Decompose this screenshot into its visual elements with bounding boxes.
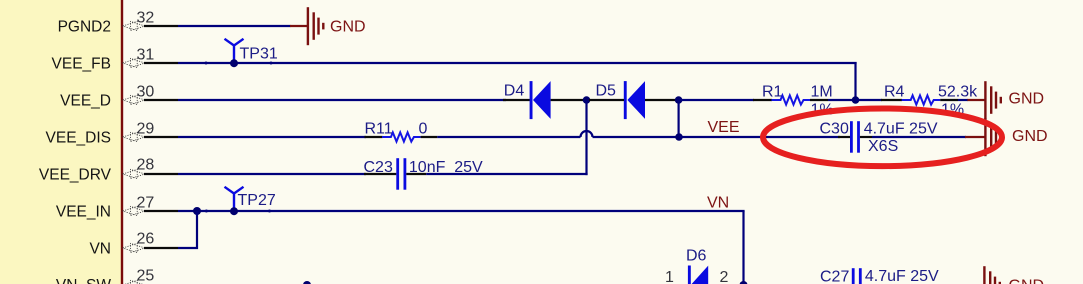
resistor R4 52.3k [881, 83, 978, 118]
ground GND (PGND2) [290, 7, 366, 45]
svg-text:31: 31 [137, 46, 155, 63]
svg-text:28: 28 [137, 157, 155, 174]
svg-text:GND: GND [330, 19, 366, 36]
svg-text:VEE_FB: VEE_FB [52, 55, 111, 72]
pin 28 symbol and stub [123, 169, 178, 178]
svg-text:VEE_DRV: VEE_DRV [39, 166, 112, 183]
pin 29 symbol and stub [123, 132, 178, 141]
svg-text:VN: VN [707, 194, 729, 211]
svg-text:52.3k: 52.3k [938, 83, 978, 100]
svg-text:D4: D4 [504, 82, 525, 99]
ground GND (C30) [965, 118, 1048, 156]
svg-text:PGND2: PGND2 [58, 18, 111, 35]
ground GND (R4) [967, 81, 1044, 119]
node vertex dot (VEE_FB right) [270, 62, 273, 65]
wire D5 node down to VEE net [677, 100, 679, 137]
svg-text:R1: R1 [762, 83, 783, 100]
resistor R1 1M [753, 83, 834, 118]
svg-text:32: 32 [137, 9, 155, 26]
capacitor C23 10nF 25V [364, 158, 484, 190]
node vertex dot (VEE_IN right) [268, 210, 271, 213]
svg-text:VN: VN [89, 240, 111, 257]
svg-text:4.7uF 25V: 4.7uF 25V [864, 120, 938, 137]
svg-text:VEE_IN: VEE_IN [56, 203, 111, 220]
svg-text:1: 1 [665, 269, 674, 284]
svg-text:GND: GND [1009, 278, 1045, 284]
pin 32 symbol and stub [123, 21, 178, 30]
wire hop over vertical [581, 131, 593, 137]
junction D6/VN node [740, 281, 748, 284]
wire PGND2 to GND [178, 25, 291, 27]
svg-text:TP27: TP27 [238, 192, 276, 209]
wire D5 node to R1 [679, 99, 754, 101]
pin 25 symbol and stub [123, 280, 178, 284]
diode D6 [672, 247, 744, 284]
resistor R11 0 [364, 120, 437, 141]
svg-text:D6: D6 [686, 247, 707, 264]
svg-text:GND: GND [1012, 128, 1048, 145]
junction D4-D5 node [583, 96, 591, 104]
wire VEE_IN horizontal [178, 210, 745, 212]
svg-text:4.7uF 25V: 4.7uF 25V [865, 268, 939, 284]
svg-text:GND: GND [1009, 91, 1045, 108]
node vertex dot (VEE_IN) [205, 210, 208, 213]
capacitor C30 4.7uF 25V X6S [820, 120, 938, 154]
wire R11 to hop [437, 136, 580, 138]
test point TP27 [225, 187, 276, 215]
svg-text:30: 30 [137, 83, 155, 100]
svg-text:R11: R11 [365, 120, 393, 137]
junction R1/R4/VEE_FB node [852, 96, 860, 104]
wire VN drop to D6 row [742, 211, 744, 284]
wire C23 to vertical riser [426, 173, 587, 175]
wire R4 to GND [958, 99, 968, 101]
svg-text:29: 29 [137, 120, 155, 137]
ground GND (C27) [965, 266, 1044, 284]
wire VEE node to C30 [679, 136, 840, 138]
wire VN pin up to VEE_IN [178, 211, 197, 248]
diode D4 [503, 81, 587, 119]
pin 26 symbol and stub [123, 243, 178, 252]
wire node to R4 [856, 99, 883, 101]
junction D5 cathode node [675, 96, 683, 104]
svg-text:TP31: TP31 [240, 46, 278, 63]
svg-text:X6S: X6S [868, 138, 898, 155]
svg-text:C23: C23 [364, 159, 393, 176]
pin 31 symbol and stub [123, 58, 178, 67]
IC body U? (sheet symbol, left) [0, 0, 122, 284]
wire VEE_DIS to R11 [178, 136, 366, 138]
svg-text:VEE_DIS: VEE_DIS [46, 129, 111, 146]
wire VEE_FB vertical drop to R1/R4 node [854, 62, 856, 100]
wire R1 to node [828, 99, 856, 101]
annotation red ellipse [763, 109, 1002, 167]
test point TP31 [225, 39, 278, 67]
svg-text:D5: D5 [596, 82, 617, 99]
junction VN_SW node [303, 281, 311, 284]
svg-text:C30: C30 [820, 121, 849, 138]
svg-text:25: 25 [137, 267, 155, 284]
svg-text:2: 2 [720, 269, 729, 284]
diode D5 [589, 81, 679, 119]
svg-text:VEE_D: VEE_D [60, 92, 111, 109]
wire VEE_FB horizontal [178, 62, 857, 64]
wire VEE_D to D4 [178, 99, 506, 101]
svg-text:0: 0 [419, 120, 428, 137]
svg-text:26: 26 [137, 231, 155, 248]
node vertex dot (VEE_FB) [205, 62, 208, 65]
wire C30 to GND [872, 136, 966, 138]
capacitor C27 4.7uF 25V [820, 268, 939, 284]
svg-text:27: 27 [137, 194, 155, 211]
pin 30 symbol and stub [123, 95, 178, 104]
junction VEE_IN/VN node [193, 207, 201, 215]
svg-text:VEE: VEE [708, 119, 740, 136]
junction VEE node [675, 133, 683, 141]
svg-text:VN_SW: VN_SW [56, 277, 111, 284]
wire VEE_DRV to C23 [178, 173, 366, 175]
wire vertical riser D4/D5 node to C23 [585, 100, 587, 175]
svg-text:R4: R4 [884, 83, 905, 100]
wire hop to VEE node [593, 136, 680, 138]
svg-text:C27: C27 [820, 268, 849, 284]
svg-text:1M: 1M [811, 83, 833, 100]
pin 27 symbol and stub [123, 206, 178, 215]
